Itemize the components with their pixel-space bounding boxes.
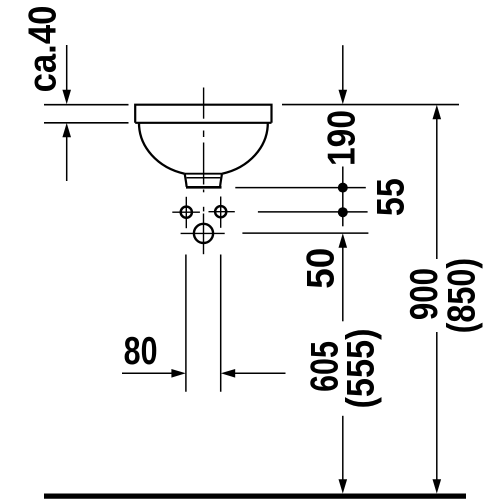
top-right extension line bbox=[282, 104, 459, 106]
svg-text:(555): (555) bbox=[339, 328, 383, 408]
drain funnel walls bbox=[185, 174, 187, 187]
svg-text:80: 80 bbox=[124, 330, 158, 373]
bowl outline bbox=[139, 123, 268, 174]
left hole crosshair bbox=[172, 197, 200, 228]
80 dimension left arrow bbox=[122, 372, 172, 374]
right hole crosshair bbox=[209, 197, 235, 228]
left faucet hole bbox=[181, 207, 192, 218]
605 dimension line lower part with arrow to floor bbox=[342, 416, 344, 481]
drain inner line bbox=[187, 177, 221, 179]
80 dimension right arrow bbox=[221, 369, 235, 378]
big hole crosshair bbox=[181, 214, 225, 255]
dimension dot upper bbox=[338, 183, 348, 193]
floor line bbox=[44, 494, 466, 499]
svg-text:50: 50 bbox=[300, 248, 343, 289]
centerline (vertical dash-dot) bbox=[203, 88, 205, 212]
hole reference line 3 (big hole level) bbox=[242, 232, 368, 234]
svg-text:(850): (850) bbox=[439, 258, 483, 334]
svg-text:190: 190 bbox=[319, 110, 363, 166]
hole reference line 2 (faucet holes level) bbox=[258, 211, 368, 213]
ca.40 dimension arrows bbox=[66, 45, 68, 90]
190 dimension arrow (down at top line) bbox=[342, 45, 344, 90]
svg-text:ca.40: ca.40 bbox=[21, 6, 64, 93]
900 dimension line lower part with arrow to floor bbox=[436, 332, 438, 481]
drain bottom bbox=[186, 186, 222, 189]
dimension dot lower bbox=[338, 207, 348, 217]
drain flange top bbox=[185, 173, 223, 175]
basin rim (front view rectangle) bbox=[135, 105, 271, 123]
right faucet hole bbox=[215, 206, 226, 217]
50 dimension arrow (up at line 3) bbox=[339, 233, 348, 247]
svg-text:55: 55 bbox=[368, 178, 412, 216]
big mounting hole bbox=[194, 224, 213, 243]
hole reference line 1 (drain level) bbox=[235, 187, 365, 189]
900 (850) dimension line, upper arrow bbox=[433, 105, 442, 119]
chained dimension line with dots bbox=[342, 167, 344, 227]
80 extension lines bbox=[186, 255, 221, 392]
ca.40 extension lines bbox=[44, 105, 129, 123]
